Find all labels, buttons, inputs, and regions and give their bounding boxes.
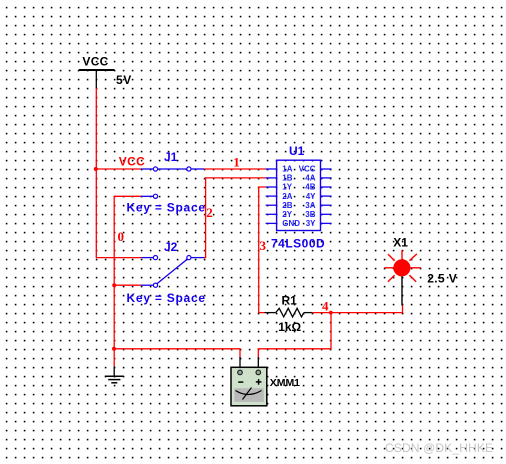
net label 3: [260, 238, 267, 253]
svg-text:0: 0: [118, 229, 125, 244]
svg-text:2Y: 2Y: [282, 210, 292, 219]
wire VCC vertical: [96, 88, 141, 258]
net label 4: [322, 298, 329, 313]
svg-text:1A: 1A: [282, 165, 292, 174]
svg-text:VCC: VCC: [119, 155, 145, 169]
svg-text:3Y: 3Y: [306, 219, 316, 228]
svg-text:4A: 4A: [305, 174, 315, 183]
wire net 4 to probe: [331, 306, 403, 313]
svg-text:Key = Space: Key = Space: [127, 200, 206, 214]
wire net 0 down to ground: [113, 285, 115, 349]
resistor R1: [265, 293, 313, 333]
svg-text:2: 2: [206, 205, 213, 220]
svg-text:3A: 3A: [305, 201, 315, 210]
junction VCC net: [94, 167, 98, 171]
svg-text:4B: 4B: [305, 183, 315, 192]
ground: [105, 366, 124, 383]
wire net 3: [259, 187, 266, 313]
svg-text:X1: X1: [393, 236, 408, 250]
switch J2: [127, 240, 206, 305]
wire net 0 to multimeter minus: [114, 349, 240, 358]
svg-text:VCC: VCC: [299, 165, 316, 174]
svg-text:1kΩ: 1kΩ: [278, 320, 301, 334]
svg-text:2A: 2A: [282, 192, 292, 201]
svg-text:5V: 5V: [116, 73, 132, 87]
wire net 2: [204, 178, 266, 258]
wire net 0 ground stub: [113, 349, 115, 366]
svg-text:R1: R1: [282, 293, 298, 307]
svg-text:1: 1: [233, 154, 240, 169]
wire net 4 to multimeter plus: [258, 313, 331, 358]
multimeter XMM1: [231, 357, 300, 406]
svg-text:U1: U1: [289, 144, 305, 158]
net label VCC: [119, 155, 145, 169]
junction net 0 at J2: [112, 283, 116, 287]
svg-text:1Y: 1Y: [282, 183, 292, 192]
switch J1: [127, 150, 206, 214]
svg-text:J2: J2: [164, 240, 178, 254]
net label 1: [233, 154, 240, 169]
svg-text:3: 3: [260, 238, 267, 253]
svg-text:Key = Space: Key = Space: [127, 291, 206, 305]
net label 0: [118, 229, 125, 244]
svg-text:3B: 3B: [305, 210, 315, 219]
svg-text:2.5 V: 2.5 V: [427, 271, 457, 285]
svg-text:CSDN @DK_HHKE: CSDN @DK_HHKE: [385, 441, 493, 455]
wire net 0 to J2 lower throw: [114, 284, 141, 286]
wire net 1: [204, 168, 266, 170]
IC U1 74LS00D: [266, 144, 332, 250]
svg-text:4: 4: [322, 298, 329, 313]
watermark: [385, 441, 493, 455]
svg-text:4Y: 4Y: [306, 192, 316, 201]
svg-text:XMM1: XMM1: [270, 377, 300, 389]
svg-text:VCC: VCC: [82, 55, 108, 69]
wire VCC to J1: [96, 168, 142, 170]
svg-text:2B: 2B: [282, 201, 292, 210]
probe X1: [384, 236, 457, 306]
junction net 4: [329, 311, 333, 315]
svg-text:74LS00D: 74LS00D: [271, 236, 325, 250]
svg-text:1B: 1B: [282, 174, 292, 183]
junction net 0 at ground: [112, 347, 116, 351]
svg-text:J1: J1: [164, 150, 178, 164]
wire net 0 from J1 lower throw: [114, 196, 141, 285]
net label 2: [206, 205, 213, 220]
svg-text:GND: GND: [282, 219, 300, 228]
power VCC: [79, 55, 132, 88]
wire net 4 from R1: [312, 312, 331, 314]
